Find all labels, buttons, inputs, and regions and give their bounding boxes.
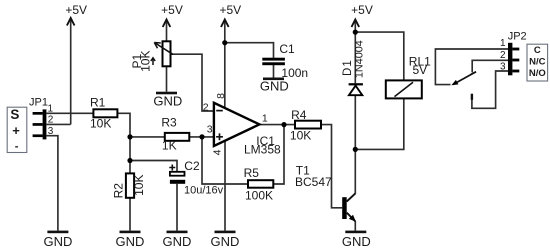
svg-text:C: C [534, 45, 541, 56]
svg-text:10K: 10K [90, 116, 111, 130]
wire RL1 bottom to collector node [355, 98, 404, 149]
wire R2 bottom to GND [129, 198, 131, 231]
wire P1 bottom to GND [166, 66, 168, 91]
svg-text:R3: R3 [161, 115, 177, 129]
svg-text:5V: 5V [413, 63, 428, 77]
svg-text:100K: 100K [245, 188, 273, 202]
wire R3 right to op-amp pin3 [189, 136, 214, 138]
svg-text:-: - [15, 141, 19, 153]
wire R4 right to T1 base [322, 125, 343, 208]
svg-text:R4: R4 [291, 108, 307, 122]
wire node to C1 top [225, 43, 274, 58]
wire JP2 pin1 to contact common [435, 49, 508, 85]
svg-text:BC547: BC547 [295, 175, 332, 189]
wire node to R3 left [130, 136, 165, 138]
ground C1 [260, 78, 289, 94]
diode D1 1N4004 [342, 40, 366, 95]
svg-text:1: 1 [262, 113, 268, 125]
svg-text:10K: 10K [290, 128, 311, 142]
svg-text:2: 2 [48, 115, 54, 126]
svg-text:+5V: +5V [161, 3, 183, 17]
wire JP2 pin2 to NC contact [472, 60, 508, 72]
svg-text:GND: GND [43, 234, 72, 249]
wire op-amp pin4 to GND [224, 138, 226, 231]
svg-text:4: 4 [212, 149, 224, 155]
svg-text:JP1: JP1 [29, 96, 48, 108]
wire C1 bottom to GND [273, 65, 275, 78]
svg-text:N/O: N/O [529, 68, 546, 79]
junction node +5V/C1 [222, 40, 227, 45]
svg-text:3: 3 [500, 61, 506, 72]
wire C2 bottom to GND [176, 184, 178, 231]
junction node output/R5 [281, 122, 286, 127]
svg-text:S: S [10, 107, 19, 122]
svg-text:+: + [12, 123, 20, 138]
wire D1 anode to T1 collector [354, 96, 356, 193]
svg-text:10u/16v: 10u/16v [184, 185, 224, 197]
svg-text:1: 1 [500, 38, 506, 49]
wire T1 emitter to GND [354, 221, 356, 231]
svg-text:D1: D1 [342, 59, 354, 76]
svg-text:8: 8 [215, 93, 227, 99]
resistor R2 [112, 173, 147, 198]
svg-text:3: 3 [48, 126, 54, 137]
JP1 label box (S + -) [7, 107, 27, 153]
junction node +5V/RL1 [353, 29, 358, 34]
svg-text:2: 2 [500, 50, 506, 61]
svg-text:C1: C1 [279, 42, 295, 56]
wire JP1 pin3 to GND [46, 136, 58, 231]
resistor R4 [290, 108, 321, 143]
ground R2 [116, 231, 145, 250]
wire +5V supply 2 to P1 top [166, 20, 168, 42]
ground T1 emitter [342, 231, 371, 250]
svg-text:+5V: +5V [351, 3, 373, 17]
transistor T1 BC547 [295, 164, 356, 222]
junction node R1/R3 [127, 134, 132, 139]
resistor R3 [161, 115, 189, 152]
wire +5V supply 1 vertical [70, 18, 72, 124]
junction node collector/RL1 [353, 147, 358, 152]
svg-text:C2: C2 [184, 159, 200, 173]
wire JP1 pin1 to R1 [46, 112, 93, 114]
JP2 label box (C N/C N/O) [527, 44, 548, 81]
ground JP1 pin3 [43, 231, 72, 250]
svg-text:1N4004: 1N4004 [354, 40, 366, 78]
wire node to C2 top [130, 161, 177, 172]
svg-text:GND: GND [116, 234, 145, 249]
svg-text:3: 3 [207, 124, 213, 136]
wire +5V supply 4 to D1 cathode [354, 20, 356, 84]
svg-text:1K: 1K [162, 139, 177, 153]
wire +5V node to RL1 top [355, 32, 404, 80]
ground P1 [153, 92, 182, 109]
svg-text:R2: R2 [112, 183, 126, 199]
wire feedback node to R5 left [202, 137, 248, 184]
svg-text:N/C: N/C [529, 57, 546, 68]
svg-text:+5V: +5V [219, 3, 241, 17]
svg-text:R5: R5 [244, 166, 260, 180]
potentiometer P1 [130, 41, 173, 72]
svg-text:LM358: LM358 [244, 143, 281, 157]
+5V supply symbol 3 [219, 3, 241, 27]
ground op-amp pin4 [211, 231, 240, 250]
svg-text:10K: 10K [139, 51, 153, 72]
wire JP2 pin3 to NO contact [472, 71, 508, 108]
svg-text:GND: GND [260, 79, 289, 94]
wire +5V supply 3 to op-amp pin8 [224, 20, 226, 111]
+5V supply symbol 2 [161, 3, 183, 27]
capacitor C2 (electrolytic) [169, 159, 223, 197]
svg-text:GND: GND [153, 94, 182, 109]
svg-text:10K: 10K [132, 175, 146, 196]
relay NO contact dash [471, 94, 473, 100]
connector JP2 [500, 31, 527, 76]
svg-text:R1: R1 [90, 96, 106, 110]
wire output node to R5 right [273, 125, 284, 184]
wire P1 wiper to op-amp pin2 [171, 54, 214, 111]
svg-text:1: 1 [48, 104, 54, 115]
resistor R5 [244, 166, 274, 202]
+5V supply symbol 1 [65, 3, 87, 26]
connector JP1 [29, 96, 54, 139]
wire JP1 pin2 stub [46, 123, 70, 125]
relay coil RL1 [386, 54, 431, 98]
+5V supply symbol 4 [351, 3, 373, 27]
wire op-amp output to R4 [259, 124, 295, 126]
capacitor C1 [262, 42, 308, 80]
wire R1 right to node column [117, 113, 130, 173]
junction node R2/C2 [127, 158, 132, 163]
svg-text:+5V: +5V [65, 3, 87, 17]
svg-text:2: 2 [203, 101, 209, 113]
ground C2 [163, 231, 192, 250]
svg-text:GND: GND [211, 234, 240, 249]
svg-text:GND: GND [342, 234, 371, 249]
svg-text:100n: 100n [281, 66, 308, 80]
svg-text:JP2: JP2 [508, 31, 527, 43]
svg-text:GND: GND [163, 234, 192, 249]
resistor R1 [90, 96, 117, 131]
relay contact arm [451, 72, 476, 100]
op-amp IC1 LM358 [203, 93, 281, 157]
junction node pin3/R5 [199, 134, 204, 139]
